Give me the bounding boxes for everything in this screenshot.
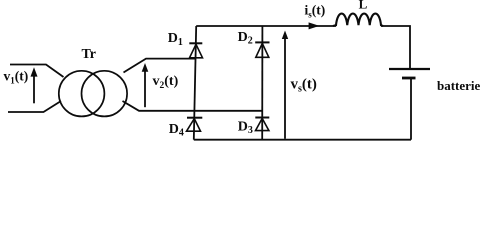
svg-text:vs(t): vs(t)	[291, 77, 317, 95]
arrow v2 head	[142, 63, 149, 72]
diode D3 triangle	[256, 118, 269, 130]
wire: secondary top lead	[124, 59, 196, 73]
wire: bottom output wire	[194, 139, 411, 141]
wire: top wire after inductor	[381, 26, 410, 69]
svg-text:batterie: batterie	[437, 78, 481, 93]
arrow v1 head	[31, 67, 38, 76]
wire: battery bottom stem	[410, 78, 412, 140]
wire: bridge left rail	[194, 26, 196, 140]
arrow i_s head on top wire	[309, 22, 320, 29]
arrow v_s head	[282, 31, 288, 40]
svg-text:is(t): is(t)	[305, 3, 326, 20]
wire: top output wire	[196, 25, 336, 27]
diode D4 triangle	[187, 119, 201, 132]
wire: primary bottom lead	[8, 101, 61, 112]
diode D2 triangle	[256, 43, 269, 57]
diode D4 cathode bar	[187, 117, 202, 119]
svg-text:D1: D1	[168, 31, 183, 48]
svg-text:D2: D2	[238, 30, 253, 47]
wire: bridge right rail	[261, 26, 263, 140]
arrow v1 line	[33, 74, 35, 103]
wire: primary top lead	[10, 65, 64, 78]
svg-text:v2(t): v2(t)	[153, 74, 179, 91]
battery positive long plate	[389, 68, 430, 70]
inductor L coil	[333, 14, 383, 26]
transformer Tr secondary winding circle	[82, 71, 128, 117]
diode D3 cathode bar	[255, 117, 269, 119]
svg-text:L: L	[359, 0, 368, 11]
svg-text:D3: D3	[238, 120, 253, 137]
diode D2 cathode bar	[255, 41, 269, 43]
diode D1 cathode bar	[189, 42, 202, 44]
arrow v2 line	[144, 70, 146, 108]
diode D1 triangle	[190, 44, 203, 58]
arrow v_s line	[284, 36, 286, 139]
svg-text:Tr: Tr	[82, 47, 97, 62]
battery negative short plate	[402, 77, 416, 80]
transformer Tr primary winding circle	[59, 71, 105, 117]
svg-text:D4: D4	[169, 122, 184, 139]
wire: secondary bottom lead (crosses left rail to right rail)	[123, 101, 263, 111]
svg-text:v1(t): v1(t)	[4, 69, 29, 86]
